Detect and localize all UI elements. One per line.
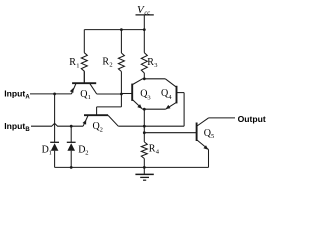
svg-text:1: 1 bbox=[76, 62, 79, 69]
svg-text:2: 2 bbox=[109, 62, 112, 69]
svg-text:4: 4 bbox=[168, 94, 172, 101]
svg-text:3: 3 bbox=[154, 62, 157, 69]
transistor Q2 bbox=[83, 115, 119, 126]
svg-text:cc: cc bbox=[144, 10, 150, 17]
junction InputA-D1 bbox=[53, 93, 56, 96]
svg-text:R: R bbox=[102, 57, 109, 68]
wire Vcc rail bbox=[84, 29, 144, 31]
label R2 bbox=[102, 57, 112, 69]
junction R3-collectors bbox=[143, 77, 146, 80]
label Q5 bbox=[204, 128, 214, 140]
junction spine-Q5 base wire bbox=[143, 131, 146, 134]
label D2 bbox=[78, 144, 88, 156]
svg-text:B: B bbox=[25, 127, 30, 133]
svg-text:4: 4 bbox=[156, 149, 160, 156]
wire ground rail bbox=[55, 166, 209, 168]
transistor Q5 bbox=[197, 118, 209, 150]
label R1 bbox=[69, 57, 79, 69]
junction Q2 wire-spine bbox=[143, 125, 146, 128]
resistor R4 bbox=[141, 142, 147, 168]
svg-text:1: 1 bbox=[49, 150, 52, 157]
power symbol Vcc bbox=[136, 15, 154, 30]
label Vcc bbox=[137, 4, 150, 17]
wire Q3-Q4 collectors bbox=[142, 78, 165, 80]
label InputA bbox=[4, 88, 30, 100]
wire Output bbox=[209, 117, 236, 119]
wire Q5 emitter down bbox=[208, 150, 210, 168]
svg-text:Input: Input bbox=[4, 121, 25, 131]
resistor R1 bbox=[81, 30, 87, 84]
label Q1 bbox=[80, 89, 91, 101]
svg-text:R: R bbox=[147, 57, 154, 68]
transistor Q3 bbox=[132, 79, 142, 109]
resistor R3 bbox=[141, 30, 147, 79]
junction R4-rail bbox=[143, 166, 146, 169]
svg-text:2: 2 bbox=[85, 150, 88, 157]
svg-text:2: 2 bbox=[100, 126, 103, 133]
label Q2 bbox=[93, 121, 103, 133]
svg-text:Output: Output bbox=[238, 114, 266, 124]
wire Q4 base bbox=[177, 93, 185, 127]
resistor R2 bbox=[118, 30, 124, 94]
wire to Q5 base bbox=[144, 132, 196, 134]
wire node to Q2 base bbox=[97, 94, 122, 115]
junction rail-R2 bbox=[120, 28, 123, 31]
transistor Q4 bbox=[165, 79, 176, 109]
wire Q3-Q4 emitters bbox=[142, 108, 165, 110]
wire Q2 emitter to Q4 base bbox=[118, 125, 184, 127]
label D1 bbox=[42, 144, 52, 156]
junction R2-Q1-Q3-Q2 node bbox=[120, 93, 123, 96]
diode D1 bbox=[50, 94, 59, 167]
wire node to Q3 base bbox=[121, 93, 132, 95]
wire Q1 collector to R2 node bbox=[97, 93, 122, 95]
label Output bbox=[238, 114, 266, 124]
label InputB bbox=[4, 121, 30, 133]
wire emitters node down bbox=[143, 109, 145, 142]
svg-text:A: A bbox=[25, 94, 30, 100]
diode D2 bbox=[67, 126, 76, 167]
label Q4 bbox=[161, 88, 172, 101]
transistor Q1 bbox=[70, 71, 97, 94]
ground bbox=[135, 167, 153, 180]
svg-text:1: 1 bbox=[88, 94, 91, 101]
svg-text:5: 5 bbox=[211, 133, 214, 140]
svg-text:Input: Input bbox=[4, 88, 25, 98]
svg-text:R: R bbox=[149, 144, 156, 155]
label R3 bbox=[147, 57, 157, 69]
junction D2-rail bbox=[70, 166, 73, 169]
junction InputB-D2 bbox=[70, 125, 73, 128]
label R4 bbox=[149, 144, 160, 156]
label Q3 bbox=[140, 89, 150, 102]
junction rail-R3 bbox=[143, 28, 146, 31]
svg-text:R: R bbox=[69, 57, 76, 68]
junction emitters-spine bbox=[143, 108, 146, 111]
wire InputA bbox=[30, 93, 71, 95]
svg-text:3: 3 bbox=[147, 94, 150, 101]
wire InputB with hop over D1 wire bbox=[31, 123, 83, 126]
